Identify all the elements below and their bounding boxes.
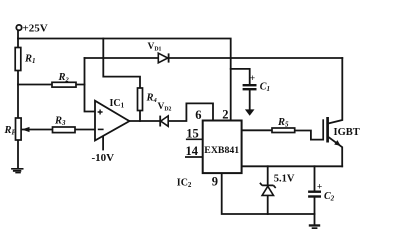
capacitor C1 (243, 84, 257, 86)
diode VD1 (158, 53, 168, 63)
svg-text:6: 6 (195, 108, 201, 122)
svg-text:R5: R5 (277, 117, 289, 129)
wire op-amp negative supply (102, 136, 104, 150)
arrow below C1 (245, 109, 255, 115)
wire to op-amp plus input (85, 58, 96, 112)
svg-text:+: + (317, 182, 322, 192)
wire C1 lower lead (249, 90, 251, 110)
svg-text:IGBT: IGBT (334, 127, 360, 138)
svg-text:9: 9 (212, 174, 218, 188)
svg-text:R2: R2 (58, 72, 70, 84)
wire C2 leads (314, 166, 316, 224)
wire R2 branch (18, 84, 85, 86)
svg-text:5.1V: 5.1V (274, 174, 295, 185)
potentiometer RP (16, 118, 22, 140)
resistor R4 (138, 88, 143, 111)
svg-text:15: 15 (186, 127, 199, 141)
svg-text:2: 2 (222, 107, 228, 121)
wire emitter rail (242, 165, 343, 167)
wire top rail +25V (18, 39, 231, 121)
wire C1 stub (231, 69, 250, 85)
svg-text:C1: C1 (260, 82, 270, 94)
svg-text:IC1: IC1 (110, 98, 125, 110)
transistor IGBT (322, 119, 324, 140)
wire pin 9 to ground rail (222, 173, 315, 214)
op-amp IC1 (95, 101, 129, 141)
wire left bus (17, 30, 19, 168)
resistor R2 (52, 82, 76, 87)
pin 14 (185, 156, 203, 158)
diode VD2 (161, 116, 169, 126)
wire R4 feed (103, 39, 140, 89)
capacitor C2 (308, 190, 321, 192)
svg-text:14: 14 (186, 144, 199, 158)
wire R5 / gate (242, 130, 324, 139)
pin 15 (186, 138, 203, 140)
wire op-amp output to pin 6 (129, 103, 213, 121)
wire emitter to rail (328, 137, 342, 167)
resistor R5 (272, 128, 295, 133)
svg-text:R1: R1 (24, 54, 36, 66)
svg-text:+25V: +25V (23, 23, 48, 35)
svg-text:+: + (250, 74, 255, 84)
wire collector drop (328, 58, 342, 124)
zener diode 5.1V (260, 183, 276, 188)
svg-text:IC2: IC2 (177, 178, 192, 190)
svg-text:R3: R3 (54, 115, 66, 127)
ground (left, below RP) (11, 168, 23, 173)
svg-text:RP: RP (4, 125, 17, 137)
svg-text:R4: R4 (146, 92, 158, 104)
wire R4 to output (139, 111, 141, 122)
wire zener leads (267, 166, 269, 214)
svg-text:-10V: -10V (92, 152, 115, 164)
ground (below C2) (309, 224, 320, 229)
svg-text:EXB841: EXB841 (204, 145, 239, 156)
wire VD1 rail (85, 57, 343, 59)
wire minus input from RP wiper (22, 129, 95, 131)
resistor R1 (15, 48, 21, 71)
svg-text:VD1: VD1 (148, 42, 162, 53)
svg-text:VD2: VD2 (158, 102, 172, 113)
terminal +25V (16, 25, 21, 30)
resistor R3 (53, 127, 76, 133)
svg-text:C2: C2 (324, 191, 335, 203)
IC2 EXB841 box (203, 121, 242, 174)
